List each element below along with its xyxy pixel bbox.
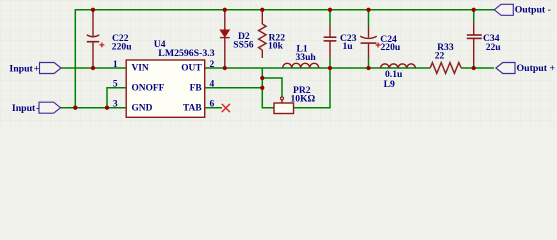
wire FB node vertical down to PR2 left terminal	[262, 68, 274, 108]
resistor R22 10k (ground rail to FB node)	[259, 10, 266, 58]
svg-text:OUT: OUT	[181, 64, 202, 74]
svg-text:SS56: SS56	[233, 39, 253, 50]
svg-text:2: 2	[210, 60, 215, 70]
svg-text:Output -: Output -	[515, 4, 551, 15]
junction C22 / ground rail	[91, 8, 95, 12]
wire ground top rail with left riser to Input- net	[75, 10, 494, 108]
svg-text:ONOFF: ONOFF	[132, 83, 165, 93]
svg-text:FB: FB	[190, 83, 202, 93]
potentiometer PR2 10K (feedback trimmer)	[274, 97, 294, 114]
capacitor C23 1u	[324, 25, 337, 58]
junction C22 / input+ line	[91, 66, 95, 70]
inductor L1 33uh	[283, 63, 319, 68]
svg-text:VIN: VIN	[132, 64, 149, 74]
wire FB node to PR2 wiper	[262, 78, 282, 97]
wire C23 lower lead to output node	[329, 58, 331, 68]
wire Input- to GND pin 3	[60, 107, 126, 109]
junction C24 / ground rail	[366, 8, 370, 12]
wire R33 to Output+ port	[461, 67, 494, 69]
capacitor C24 (polarized, output bulk 220u)	[360, 26, 380, 58]
svg-text:33uh: 33uh	[296, 52, 317, 63]
svg-text:TAB: TAB	[183, 103, 202, 113]
junction ONOFF riser / Input- line	[105, 106, 109, 110]
junction C23,PR2 / output node	[328, 66, 332, 70]
port Input +	[40, 63, 62, 74]
capacitor C22 (polarized, input bulk 220u)	[87, 10, 105, 68]
wire Input+ to VIN pin 1	[61, 67, 126, 69]
port Output -	[494, 4, 513, 15]
svg-text:6: 6	[210, 100, 215, 110]
resistor R33 22 (series output)	[430, 63, 461, 74]
junction C34 / Output+ node	[472, 66, 476, 70]
junction C34 / ground rail	[472, 8, 476, 12]
port Output +	[496, 63, 515, 74]
junction R22 / ground rail	[260, 8, 264, 12]
junction wiper tee on FB vertical	[260, 76, 264, 80]
svg-text:5: 5	[113, 80, 118, 90]
svg-text:GND: GND	[132, 103, 153, 113]
junction C24 / output node	[366, 66, 370, 70]
wire C34 upper lead to ground rail	[473, 10, 475, 22]
svg-text:Output +: Output +	[517, 63, 556, 74]
junction FB pin tee	[260, 86, 264, 90]
wire C34 lower lead to Output+ node	[473, 64, 475, 68]
capacitor C34 22u	[467, 22, 482, 64]
svg-text:22: 22	[435, 51, 445, 62]
svg-text:L9: L9	[384, 79, 395, 90]
inductor L9 0.1u (output filter bead)	[381, 64, 416, 68]
IC U4 LM2596S-3.3 body	[126, 60, 205, 117]
wire ONOFF pin 5 down to Input- net	[107, 88, 126, 108]
wire C23 upper lead to ground rail	[329, 10, 331, 25]
svg-text:1u: 1u	[343, 41, 354, 52]
svg-text:4: 4	[210, 80, 215, 90]
svg-text:22u: 22u	[486, 42, 502, 53]
diode D2 SS56 (freewheel, anode to ground rail)	[220, 10, 230, 68]
port Input -	[39, 102, 61, 113]
wire C24 lower lead to output node	[368, 58, 370, 68]
wire TAB pin 6 stub	[205, 107, 222, 109]
svg-text:220u: 220u	[112, 42, 132, 53]
svg-text:10k: 10k	[268, 41, 284, 52]
junction C23 / ground rail	[328, 8, 332, 12]
junction D2 / ground rail	[223, 8, 227, 12]
wire OUT pin 2 switch node to R33	[205, 67, 431, 69]
svg-text:1: 1	[113, 60, 118, 70]
wire PR2 right terminal up to output node	[294, 68, 331, 108]
svg-text:3: 3	[113, 100, 118, 110]
svg-text:Input -: Input -	[12, 103, 40, 114]
svg-text:Input +: Input +	[9, 63, 39, 74]
wire FB pin 4 to FB node	[205, 87, 263, 89]
junction D2 / switch node	[223, 66, 227, 70]
junction ground riser / Input- line	[73, 106, 77, 110]
no-connect X on TAB pin	[222, 104, 230, 112]
wire C24 upper lead to ground rail	[368, 10, 370, 26]
svg-text:LM2596S-3.3: LM2596S-3.3	[158, 48, 214, 59]
svg-text:220u: 220u	[381, 42, 401, 53]
svg-text:10KΩ: 10KΩ	[291, 94, 316, 105]
